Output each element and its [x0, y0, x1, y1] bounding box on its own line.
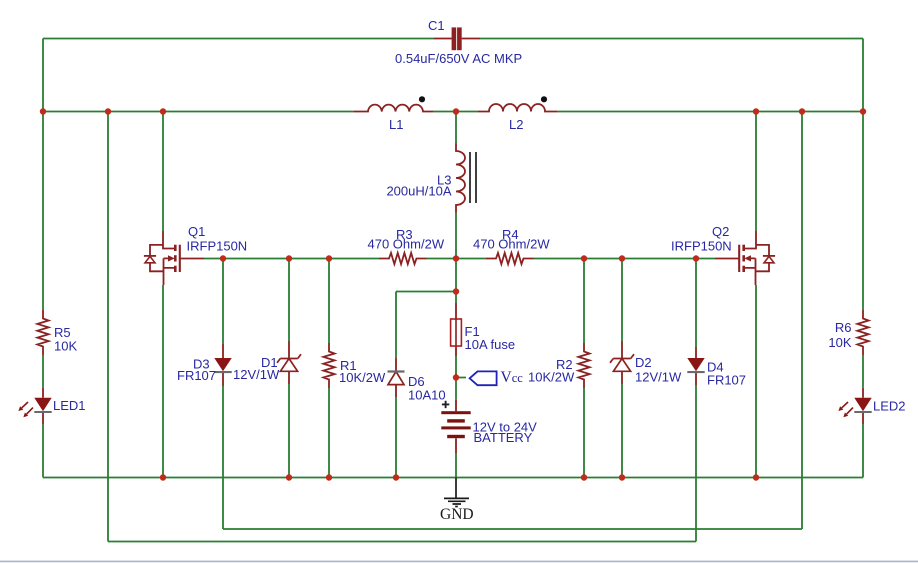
svg-text:10K/2W: 10K/2W [528, 370, 575, 385]
svg-text:Q1: Q1 [188, 224, 205, 239]
svg-text:10A10: 10A10 [408, 388, 446, 403]
svg-text:C1: C1 [428, 18, 445, 33]
svg-text:R6: R6 [835, 320, 852, 335]
svg-text:10A fuse: 10A fuse [465, 337, 516, 352]
svg-text:LED2: LED2 [873, 399, 906, 414]
svg-text:FR107: FR107 [707, 373, 746, 388]
svg-text:GND: GND [440, 506, 474, 523]
svg-text:470 Ohm/2W: 470 Ohm/2W [368, 237, 445, 252]
svg-text:L2: L2 [509, 117, 523, 132]
svg-text:IRFP150N: IRFP150N [671, 239, 732, 254]
svg-text:IRFP150N: IRFP150N [187, 239, 248, 254]
svg-text:10K/2W: 10K/2W [339, 370, 386, 385]
svg-text:12V/1W: 12V/1W [635, 370, 682, 385]
svg-text:10K: 10K [828, 335, 851, 350]
svg-text:FR107: FR107 [177, 368, 216, 383]
svg-text:200uH/10A: 200uH/10A [386, 184, 451, 199]
svg-text:L1: L1 [389, 117, 403, 132]
svg-text:LED1: LED1 [53, 398, 86, 413]
svg-text:12V/1W: 12V/1W [233, 367, 280, 382]
svg-text:470 Ohm/2W: 470 Ohm/2W [473, 237, 550, 252]
svg-text:D2: D2 [635, 355, 652, 370]
svg-text:BATTERY: BATTERY [474, 430, 533, 445]
svg-text:Vcc: Vcc [501, 369, 524, 386]
svg-text:Q2: Q2 [712, 224, 729, 239]
svg-text:0.54uF/650V AC MKP: 0.54uF/650V AC MKP [395, 51, 522, 66]
svg-text:10K: 10K [54, 339, 77, 354]
